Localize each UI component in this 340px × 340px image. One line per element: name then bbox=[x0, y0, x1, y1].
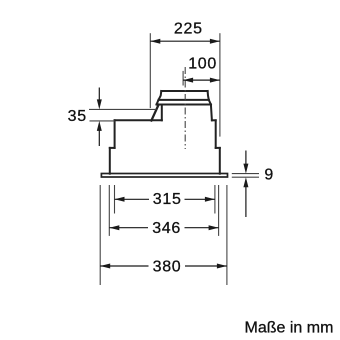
svg-text:9: 9 bbox=[264, 167, 274, 184]
svg-text:100: 100 bbox=[188, 56, 217, 73]
svg-text:315: 315 bbox=[153, 191, 182, 208]
svg-text:Maße in mm: Maße in mm bbox=[245, 320, 334, 337]
svg-text:225: 225 bbox=[174, 21, 203, 38]
svg-text:35: 35 bbox=[68, 108, 87, 125]
svg-text:346: 346 bbox=[152, 220, 181, 237]
svg-text:380: 380 bbox=[153, 259, 182, 276]
